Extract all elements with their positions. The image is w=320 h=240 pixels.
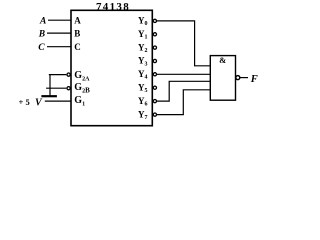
- svg-text:A: A: [74, 16, 81, 26]
- svg-text:+ 5: + 5: [19, 97, 30, 107]
- output bubble Y5: [153, 86, 156, 89]
- wire +5V to G1: [45, 100, 72, 102]
- ground bar: [41, 95, 57, 97]
- output bubble Y2: [153, 46, 156, 49]
- NAND gate U2 body: [210, 56, 235, 101]
- NAND gate U2 output bubble: [236, 76, 240, 80]
- svg-text:C: C: [74, 42, 81, 52]
- wire Y6 to gate: [157, 81, 210, 101]
- output bubble Y1: [153, 33, 156, 36]
- svg-text:B: B: [74, 28, 80, 38]
- wire input C: [47, 46, 72, 48]
- svg-text:&: &: [219, 55, 226, 65]
- output bubble Y0: [153, 19, 156, 22]
- wire Y0 to gate: [157, 21, 210, 66]
- svg-text:74138: 74138: [96, 1, 130, 13]
- wire Y7 to gate: [157, 90, 210, 115]
- wire G2A: [49, 74, 67, 76]
- wire G2B: [46, 87, 66, 89]
- enable pin bubble G2A: [67, 73, 70, 76]
- output bubble Y6: [153, 100, 156, 103]
- svg-text:A: A: [39, 16, 46, 26]
- wire gate output to F: [240, 77, 248, 79]
- wire input B: [47, 32, 72, 34]
- wire input A: [48, 19, 72, 21]
- wire Y4 to gate: [157, 73, 210, 75]
- enable pin bubble G2B: [67, 87, 70, 90]
- IC U1 74138 body: [71, 10, 152, 125]
- svg-text:B: B: [38, 29, 45, 39]
- ground stem wire: [49, 75, 51, 96]
- output bubble Y7: [153, 113, 156, 116]
- svg-text:F: F: [250, 74, 258, 85]
- svg-text:C: C: [38, 43, 45, 53]
- output bubble Y3: [153, 59, 156, 62]
- svg-text:V: V: [35, 97, 43, 108]
- output bubble Y4: [153, 73, 156, 76]
